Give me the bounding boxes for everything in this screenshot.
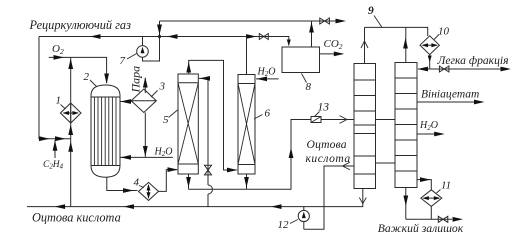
svg-text:4: 4 <box>134 177 140 189</box>
label 11 <box>437 180 452 194</box>
wire: vinyl acetate product <box>417 100 485 105</box>
rectification column 9 (left shell) <box>354 64 376 189</box>
wire: acetic acid recycle header (bottom) <box>27 189 366 210</box>
svg-text:7: 7 <box>120 55 126 67</box>
wire: recycle gas top header y=21 <box>160 19 347 24</box>
label 2 <box>84 71 97 87</box>
valve on light fraction line <box>439 66 449 72</box>
label 6 <box>254 108 271 120</box>
wire: mixed feed riser through evaporator 1 up to O2 line <box>68 57 73 138</box>
svg-text:Легка фракція: Легка фракція <box>437 54 509 67</box>
svg-text:6: 6 <box>265 108 271 120</box>
svg-text:3: 3 <box>159 81 166 93</box>
label 7 <box>120 54 137 68</box>
pressure reducing device 13 <box>311 117 321 123</box>
wire: drop from top header to compressor suction x=159.5 <box>143 21 162 61</box>
wire: heavy residue line with valve <box>406 217 463 222</box>
svg-text:9: 9 <box>368 5 374 17</box>
wire: overhead header to condenser 10 <box>365 27 428 36</box>
svg-text:8: 8 <box>306 81 312 93</box>
heat exchanger 1 (evaporator) <box>60 103 81 123</box>
wire: steam drum bottom to water line <box>143 113 148 158</box>
wire: compressor discharge to header <box>142 37 144 46</box>
wire: col5 overhead to col6 bottom <box>186 60 237 172</box>
svg-text:Важкий залишок: Важкий залишок <box>378 222 464 235</box>
wire: reactor to steam drum 3 <box>120 99 132 104</box>
wire: col5 bottoms down <box>186 174 191 189</box>
heat exchanger 11 (cooler) <box>421 190 442 207</box>
wire: absorbent (acetic) into col5 top <box>199 76 213 207</box>
label 9 <box>368 5 382 27</box>
wire: absorber bottoms header to riser <box>189 120 312 190</box>
reactor 2 (tubular) <box>91 85 120 177</box>
svg-text:10: 10 <box>438 26 450 38</box>
wire: condenser outlet, reflux and light fraction <box>418 55 512 72</box>
wire: separator gas riser to top header <box>309 21 314 47</box>
pump 12 <box>298 207 309 230</box>
compressor U7 <box>137 46 149 58</box>
wire: H2O draw from column 9 <box>417 132 445 137</box>
svg-text:11: 11 <box>441 180 451 192</box>
svg-text:Оцтова кислота: Оцтова кислота <box>32 211 121 225</box>
label 4 <box>134 177 145 189</box>
wire: col6 bottoms down <box>244 174 249 189</box>
valve on residue line <box>438 216 448 222</box>
svg-text:5: 5 <box>163 114 169 126</box>
svg-text:12: 12 <box>278 219 290 231</box>
condenser 10 <box>420 36 439 55</box>
wire: col6 overhead riser to header <box>246 37 248 75</box>
label 3 <box>151 81 166 98</box>
rectification column 9 (right shell) <box>395 63 417 188</box>
svg-text:кислота: кислота <box>306 152 351 165</box>
wire: side stream through cooler 11 <box>417 177 431 219</box>
absorber column 5 <box>178 74 198 174</box>
svg-text:2: 2 <box>84 71 90 83</box>
wire: feed into column 9 <box>321 116 355 124</box>
wire: cooler 4 to absorber 5 bottom <box>159 167 179 191</box>
svg-text:1: 1 <box>56 95 62 107</box>
label 1 <box>56 95 66 110</box>
label 12 <box>278 219 298 231</box>
wire: C2H4 feed riser <box>53 140 58 158</box>
valve on vent line (top) <box>320 18 330 24</box>
wire: acetic acid riser to mixer junction <box>68 139 73 207</box>
wire: shell interconnect lower <box>376 162 396 164</box>
separator 8 <box>282 47 320 73</box>
label 13 <box>315 102 330 117</box>
svg-text:Оцтова: Оцтова <box>307 138 347 151</box>
svg-text:Вініацетат: Вініацетат <box>421 89 479 101</box>
wire: reactor bottom outlet to cooler 4 <box>107 177 138 193</box>
wire: steam vent with Пара label <box>143 77 148 93</box>
wire: left trunk down and mixing header y=138.7 <box>39 37 71 142</box>
valve (angle) on absorbent riser <box>205 165 212 175</box>
label 10 <box>434 26 450 40</box>
wire: left shell overhead riser <box>361 27 368 63</box>
heat exchanger 3 (steam generator) <box>131 89 156 113</box>
wire: shell interconnect upper <box>376 119 396 121</box>
wire: acetic acid side draw to pump 12 <box>304 162 354 229</box>
absorber column 6 <box>238 75 255 175</box>
wire: recycle gas header y=36.5 <box>39 34 291 46</box>
label 8 <box>302 74 312 94</box>
wire: CO2 vent <box>320 52 345 57</box>
wire: O2 line to reactor top <box>49 55 109 84</box>
wire: H2O wash into col6 <box>256 77 279 82</box>
valve before separator on y=36.5 <box>259 34 268 40</box>
wire: right shell vapor riser <box>403 27 408 62</box>
wire: column 9 bottoms to residue line <box>403 187 408 219</box>
svg-text:Рециркулюючий газ: Рециркулюючий газ <box>29 18 132 32</box>
heat exchanger 4 (cooler) <box>139 182 159 200</box>
wire: H2O make-up into reactor shell <box>120 155 173 160</box>
svg-text:Пара: Пара <box>129 66 143 94</box>
label 5 <box>163 110 178 126</box>
